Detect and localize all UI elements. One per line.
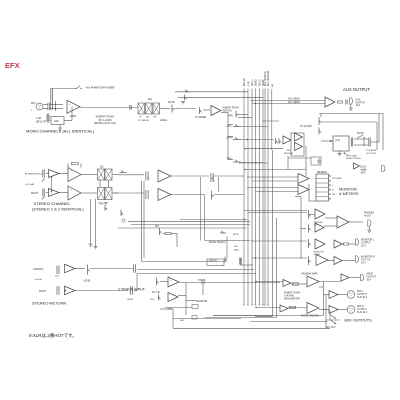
svg-text:10.4: 10.4: [356, 104, 361, 107]
svg-text:MF: MF: [146, 117, 150, 119]
svg-text:TO/FROM: TO/FROM: [366, 150, 376, 152]
svg-text:12-7dB MF: 12-7dB MF: [138, 120, 149, 122]
svg-text:EQ: EQ: [148, 97, 152, 101]
svg-text:A-OUT: A-OUT: [364, 215, 372, 218]
svg-text:20-20: 20-20: [360, 167, 367, 169]
svg-text:MUTE SW(ST): MUTE SW(ST): [209, 241, 226, 244]
svg-text:+4dBu: +4dBu: [360, 170, 367, 172]
svg-text:2ch+Mc: 2ch+Mc: [35, 279, 44, 281]
svg-text:AUX SEND: AUX SEND: [288, 98, 300, 101]
svg-text:2Tr.(+4): 2Tr.(+4): [152, 291, 160, 294]
svg-text:RETURN: RETURN: [284, 153, 294, 155]
svg-text:MONITOR: MONITOR: [196, 300, 208, 303]
svg-text:10.4: 10.4: [361, 262, 366, 265]
svg-text:EFFECTOR(S): EFFECTOR(S): [346, 158, 361, 160]
svg-text:HF: HF: [154, 117, 158, 119]
svg-text:MIX (A): MIX (A): [243, 78, 246, 86]
svg-text:MIC: MIC: [31, 101, 36, 105]
svg-text:AUX 1: AUX 1: [251, 79, 254, 86]
svg-text:ATTEN(L/MONO): ATTEN(L/MONO): [25, 173, 42, 176]
svg-text:MUTE: MUTE: [168, 102, 175, 104]
svg-text:L: L: [332, 185, 334, 187]
svg-text:EFX: EFX: [287, 150, 292, 152]
svg-text:STEREO CHANNEL: STEREO CHANNEL: [34, 201, 71, 206]
svg-text:(MIX): (MIX): [234, 250, 239, 252]
svg-text:+: +: [69, 103, 71, 106]
svg-text:+4/-10dB: +4/-10dB: [25, 184, 34, 186]
svg-text:SW: SW: [54, 119, 59, 123]
svg-text:GAIN(MIX AMP): GAIN(MIX AMP): [301, 272, 318, 275]
svg-text:XLR 10.4: XLR 10.4: [357, 311, 368, 314]
svg-text:MUTE: MUTE: [233, 234, 239, 236]
svg-text:MIX: MIX: [180, 320, 184, 322]
svg-text:FX: FX: [336, 139, 341, 143]
svg-text:(STEREO 1 & 2 IDENTICAL): (STEREO 1 & 2 IDENTICAL): [32, 207, 84, 212]
svg-text:OUTPUT: OUTPUT: [367, 277, 377, 279]
svg-text:AUX 2: AUX 2: [259, 79, 262, 86]
svg-text:MUTE: MUTE: [100, 204, 107, 206]
svg-text:(MONO): (MONO): [223, 109, 232, 112]
svg-text:LEVEL: LEVEL: [84, 281, 92, 283]
svg-text:EFX: EFX: [361, 172, 366, 174]
svg-text:AUX SEND: AUX SEND: [288, 101, 300, 104]
svg-text:(EF)1-TR: (EF)1-TR: [36, 121, 46, 124]
svg-text:EFX SEND (R): EFX SEND (R): [268, 70, 270, 86]
svg-text:MUTE: MUTE: [357, 133, 364, 135]
svg-text:(2P): (2P): [55, 276, 59, 278]
svg-text:SEND: SEND: [256, 79, 258, 86]
svg-text:LEVEL: LEVEL: [160, 120, 168, 122]
svg-text:TR PEAK: TR PEAK: [332, 177, 342, 180]
svg-text:FOOTSW: FOOTSW: [366, 153, 377, 155]
svg-text:RIGHT: RIGHT: [31, 193, 39, 195]
svg-text:4ch PHANTOM POWER: 4ch PHANTOM POWER: [86, 86, 114, 90]
svg-text:(MIX)+METER: (MIX)+METER: [284, 298, 300, 301]
svg-text:2 TRACK INPUT: 2 TRACK INPUT: [118, 288, 146, 292]
svg-text:AUX: AUX: [227, 125, 232, 128]
svg-text:MONO CHANNELS (ALL IDENTICAL): MONO CHANNELS (ALL IDENTICAL): [26, 129, 95, 134]
svg-text:METERS: METERS: [317, 171, 327, 174]
svg-text:PFL: PFL: [155, 226, 160, 228]
svg-text:& METERS: & METERS: [339, 192, 359, 196]
svg-text:+: +: [71, 189, 73, 192]
svg-text:(MONO+ACC.CH): (MONO+ACC.CH): [94, 121, 116, 125]
svg-text:OPTIONAL: OPTIONAL: [346, 154, 358, 157]
svg-text:MONT: MONT: [367, 274, 374, 276]
svg-text:ch FADER: ch FADER: [195, 116, 206, 119]
svg-text:R: R: [332, 190, 334, 192]
svg-text:EFX: EFX: [227, 159, 232, 161]
svg-text:10.4: 10.4: [361, 245, 366, 248]
svg-text:EFX: EFX: [234, 246, 239, 248]
svg-text:LF: LF: [139, 117, 142, 119]
svg-text:(R): (R): [272, 84, 274, 87]
svg-text:MUTE SW(MIX): MUTE SW(MIX): [301, 315, 319, 318]
svg-text:EFX SEND (L): EFX SEND (L): [265, 71, 267, 86]
svg-text:AUX OUTPUT: AUX OUTPUT: [343, 87, 370, 92]
svg-text:EFX: EFX: [5, 61, 20, 70]
svg-text:PAN: PAN: [228, 115, 233, 118]
svg-text:STEREO RETURN: STEREO RETURN: [32, 301, 66, 306]
svg-text:+: +: [171, 279, 173, 282]
svg-text:LVL: LVL: [314, 225, 319, 227]
svg-text:EQ: EQ: [100, 166, 104, 169]
svg-text:RIGHT: RIGHT: [39, 290, 47, 293]
svg-text:GAIN: GAIN: [70, 115, 76, 118]
svg-text:MIX OUTPUTS: MIX OUTPUTS: [345, 318, 373, 323]
svg-text:MONITOR: MONITOR: [339, 187, 357, 191]
svg-text:(PF): (PF): [150, 299, 155, 301]
svg-text:FX (AUX)P: FX (AUX)P: [300, 125, 312, 128]
svg-text:2: 2: [31, 110, 33, 112]
svg-text:10.4: 10.4: [367, 280, 372, 282]
svg-text:L (a): L (a): [248, 81, 250, 86]
svg-text:LEVEL: LEVEL: [127, 299, 134, 301]
svg-text:SUB IN: SUB IN: [209, 261, 217, 263]
svg-text:(EFX): (EFX): [227, 138, 233, 140]
svg-text:MIX: MIX: [168, 308, 172, 310]
svg-text:9.XLRは,2番HOTです。: 9.XLRは,2番HOTです。: [29, 332, 77, 339]
svg-text:XLR 10.4: XLR 10.4: [357, 296, 368, 299]
svg-text:L(MONO): L(MONO): [33, 268, 44, 271]
svg-text:PFL: PFL: [332, 194, 337, 196]
